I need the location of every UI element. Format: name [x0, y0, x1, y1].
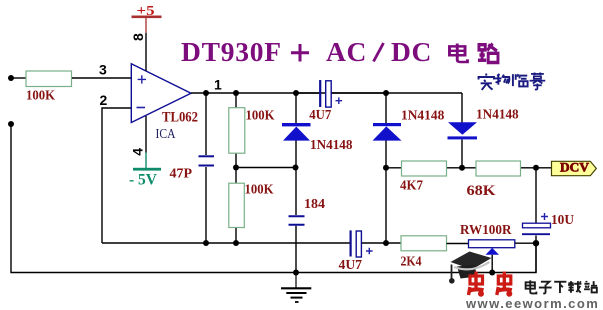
wire D2 bottom down [385, 168, 387, 243]
svg-text:3: 3 [99, 62, 107, 78]
svg-text:RW100R: RW100R [460, 223, 512, 238]
node D2 bottom [383, 165, 389, 171]
wire C47P bottom [205, 167, 207, 243]
wire bottom rail [11, 124, 536, 273]
output row wires [386, 167, 551, 169]
capacitor 184 [289, 168, 305, 273]
wire R1 to op-amp pin3 [72, 77, 131, 79]
node D1 bottom [293, 165, 299, 171]
title slash [374, 43, 384, 62]
node input A [8, 75, 14, 81]
node C47P bottom [203, 240, 209, 246]
svg-text:100K: 100K [26, 88, 55, 103]
node R2 top [233, 90, 239, 96]
svg-text:2: 2 [100, 92, 108, 108]
svg-text:1: 1 [214, 77, 222, 93]
op-amp U1 TL062 [131, 64, 191, 123]
svg-text:1N4148: 1N4148 [476, 108, 519, 123]
svg-text:DT930F: DT930F [181, 36, 282, 67]
子 [539, 282, 552, 294]
wire node to D1 bottom [236, 167, 296, 169]
resistor R2 100K (upper vertical) [235, 93, 237, 168]
wire 2K4 to pot [447, 243, 469, 245]
svg-text:2K4: 2K4 [401, 255, 422, 270]
capacitor 47P [199, 156, 215, 165]
diode D3 1N4148 (pointing down) [448, 122, 478, 168]
node D1 top [293, 90, 299, 96]
capacitor 10U [522, 168, 551, 273]
node R3 bottom [233, 240, 239, 246]
node D2 top [383, 90, 389, 96]
resistor 4K7 [402, 161, 447, 176]
svg-text:DCV: DCV [560, 159, 590, 174]
node between R2 R3 [233, 165, 239, 171]
wire pin2 [102, 108, 131, 243]
logo 电子下载站 [526, 280, 598, 293]
svg-text:AC: AC [326, 36, 367, 67]
svg-text:4K7: 4K7 [400, 179, 423, 194]
wire pin4 [145, 116, 147, 153]
capacitor 4U7 (top) [296, 80, 386, 107]
wire output to node 1 [191, 93, 462, 123]
node pot right [533, 240, 539, 246]
物 [495, 74, 510, 85]
svg-text:184: 184 [304, 197, 325, 212]
node DCV [533, 165, 539, 171]
resistor 68K [476, 161, 521, 176]
svg-text:- 5V: - 5V [129, 172, 157, 189]
svg-text:4: 4 [130, 148, 146, 156]
diode D1 1N4148 [282, 93, 311, 168]
svg-text:DC: DC [391, 36, 432, 67]
resistor R1 100K [26, 71, 72, 87]
wire node1 down to C47P [205, 93, 207, 155]
svg-text:TL062: TL062 [162, 110, 198, 126]
svg-text:4U7: 4U7 [309, 108, 331, 123]
capacitor 4U7 (bottom) [351, 230, 401, 257]
电 [526, 280, 537, 293]
node input B [8, 121, 14, 127]
svg-text:10U: 10U [551, 213, 574, 228]
wire input A to R1 [11, 77, 26, 79]
svg-text:1N4148: 1N4148 [401, 108, 444, 123]
node D3 bottom [459, 165, 465, 171]
-5V supply [129, 168, 161, 189]
resistor 2K4 [401, 236, 447, 251]
临 [513, 74, 528, 86]
ground [281, 273, 311, 303]
title CJK 电 [449, 44, 467, 62]
title plus [291, 44, 309, 62]
resistor R3 100K (lower vertical) [235, 168, 237, 244]
svg-text:1N4148: 1N4148 [310, 138, 353, 153]
title DT930F + AC / DC [181, 36, 282, 67]
node 1 [203, 90, 209, 96]
DCV flag [552, 159, 597, 175]
node ground [293, 270, 299, 276]
svg-text:www.eeworm.com: www.eeworm.com [465, 296, 599, 310]
摹 [530, 73, 546, 90]
站 [584, 281, 597, 293]
svg-text:4U7: 4U7 [339, 258, 363, 273]
logo graduation cap [449, 252, 492, 284]
下 [554, 282, 566, 293]
op-amp minus mark [137, 107, 146, 109]
svg-text:68K: 68K [467, 183, 496, 199]
node wiper bottom [489, 270, 495, 276]
node feedback/2K4 [383, 240, 389, 246]
note 实物临摹 [479, 73, 546, 90]
logo 虫虫 [469, 272, 513, 297]
diode D2 1N4148 [373, 93, 402, 168]
svg-text:100K: 100K [246, 108, 275, 123]
svg-text:ICA: ICA [156, 127, 177, 142]
svg-text:100K: 100K [245, 183, 274, 198]
wire pin8 [145, 33, 147, 71]
svg-text:8: 8 [130, 33, 146, 41]
potentiometer RW100R [469, 240, 537, 273]
实 [479, 74, 494, 90]
op-amp plus mark [138, 75, 146, 83]
title CJK 路 [478, 44, 498, 63]
载 [568, 281, 581, 293]
feedback row: wire to 4U7b [102, 242, 351, 244]
svg-text:47P: 47P [170, 167, 193, 182]
+5 supply [132, 4, 162, 33]
